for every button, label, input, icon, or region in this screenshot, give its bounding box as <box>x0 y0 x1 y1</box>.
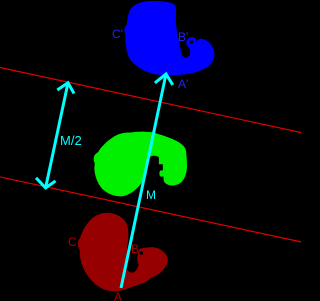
dark red blob (original figure ABC) <box>78 213 168 292</box>
green blob (middle figure) <box>94 132 187 197</box>
arrowhead at A' <box>155 74 173 85</box>
label M/2 (half-vector distance) <box>60 134 82 147</box>
label M (translation vector) <box>146 189 156 201</box>
label A' (blue image point) <box>178 78 188 90</box>
spiral curl of blue hook tip <box>190 40 193 43</box>
label C (original point) <box>68 236 77 248</box>
label B (original point) <box>131 243 139 255</box>
label B' (blue image point) <box>178 31 188 43</box>
main cyan translation arrow from A to A' <box>121 74 173 288</box>
lower red parallel line <box>0 177 301 242</box>
spiral curl of dark red hook tip <box>140 251 144 255</box>
double arrow M/2 between the parallel lines <box>36 83 74 188</box>
label A (original point) <box>114 291 122 301</box>
upper red parallel line <box>0 68 301 133</box>
label C' (blue image point) <box>112 28 123 40</box>
blue blob (image figure A'B'C') <box>124 1 214 75</box>
